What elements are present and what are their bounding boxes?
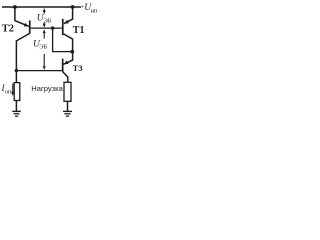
svg-text:Нагрузка: Нагрузка <box>31 84 63 93</box>
svg-text:ЭБ: ЭБ <box>44 17 52 24</box>
svg-text:Т1: Т1 <box>73 25 85 36</box>
svg-text:Т2: Т2 <box>2 24 14 35</box>
svg-text:ип: ип <box>91 7 98 14</box>
svg-text:Т3: Т3 <box>73 63 83 73</box>
svg-text:ЭБ: ЭБ <box>39 44 47 51</box>
svg-text:оп: оп <box>5 89 12 96</box>
